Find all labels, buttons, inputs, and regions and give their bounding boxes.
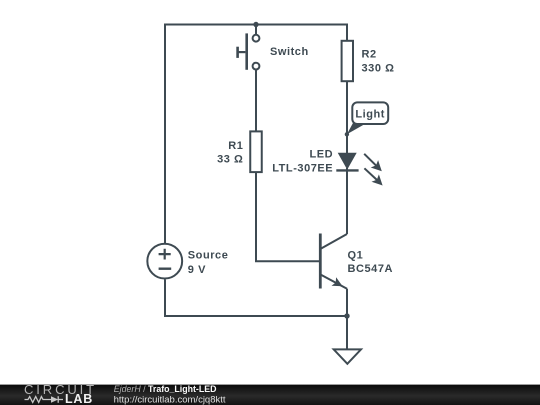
svg-text:Q1: Q1 (348, 249, 364, 261)
svg-text:BC547A: BC547A (348, 263, 394, 275)
svg-text:LAB: LAB (65, 392, 93, 405)
svg-text:Light: Light (355, 108, 385, 120)
svg-text:EjderH / Trafo_Light-LED: EjderH / Trafo_Light-LED (114, 384, 217, 394)
svg-text:330 Ω: 330 Ω (362, 62, 395, 74)
svg-text:9 V: 9 V (188, 264, 206, 276)
svg-text:R2: R2 (362, 48, 377, 60)
svg-text:Switch: Switch (270, 46, 309, 58)
svg-text:LTL-307EE: LTL-307EE (272, 163, 333, 175)
svg-text:33 Ω: 33 Ω (217, 153, 243, 165)
svg-text:R1: R1 (228, 140, 243, 152)
svg-text:http://circuitlab.com/cjq8ktt: http://circuitlab.com/cjq8ktt (114, 394, 226, 405)
svg-text:Source: Source (188, 249, 229, 261)
svg-text:LED: LED (310, 149, 334, 161)
